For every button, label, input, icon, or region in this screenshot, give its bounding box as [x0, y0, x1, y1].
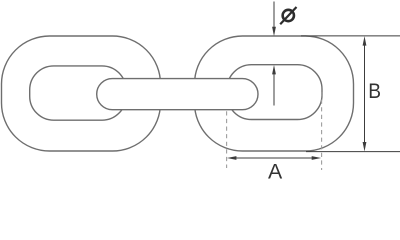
inner wire arrow	[273, 73, 275, 106]
left chain link outer	[2, 36, 161, 151]
A arrow right	[312, 156, 322, 160]
diameter leader arrow	[273, 2, 275, 29]
right chain link hole	[227, 65, 322, 120]
svg-text:B: B	[368, 80, 381, 103]
svg-text:A: A	[268, 159, 283, 183]
A dimension line	[234, 157, 314, 159]
dashed witness line right	[321, 92, 323, 170]
B extension line bottom	[306, 151, 400, 153]
dashed witness line left	[226, 111, 228, 168]
right chain link outer	[195, 36, 354, 151]
A arrow left	[227, 156, 237, 160]
diameter symbol	[283, 10, 294, 21]
B extension line top	[301, 35, 400, 37]
left chain link hole	[30, 66, 126, 120]
B dimension line	[364, 44, 366, 143]
B arrow down	[363, 142, 367, 152]
B arrow up	[363, 36, 367, 46]
middle chain link (edge-on bar)	[97, 79, 258, 110]
